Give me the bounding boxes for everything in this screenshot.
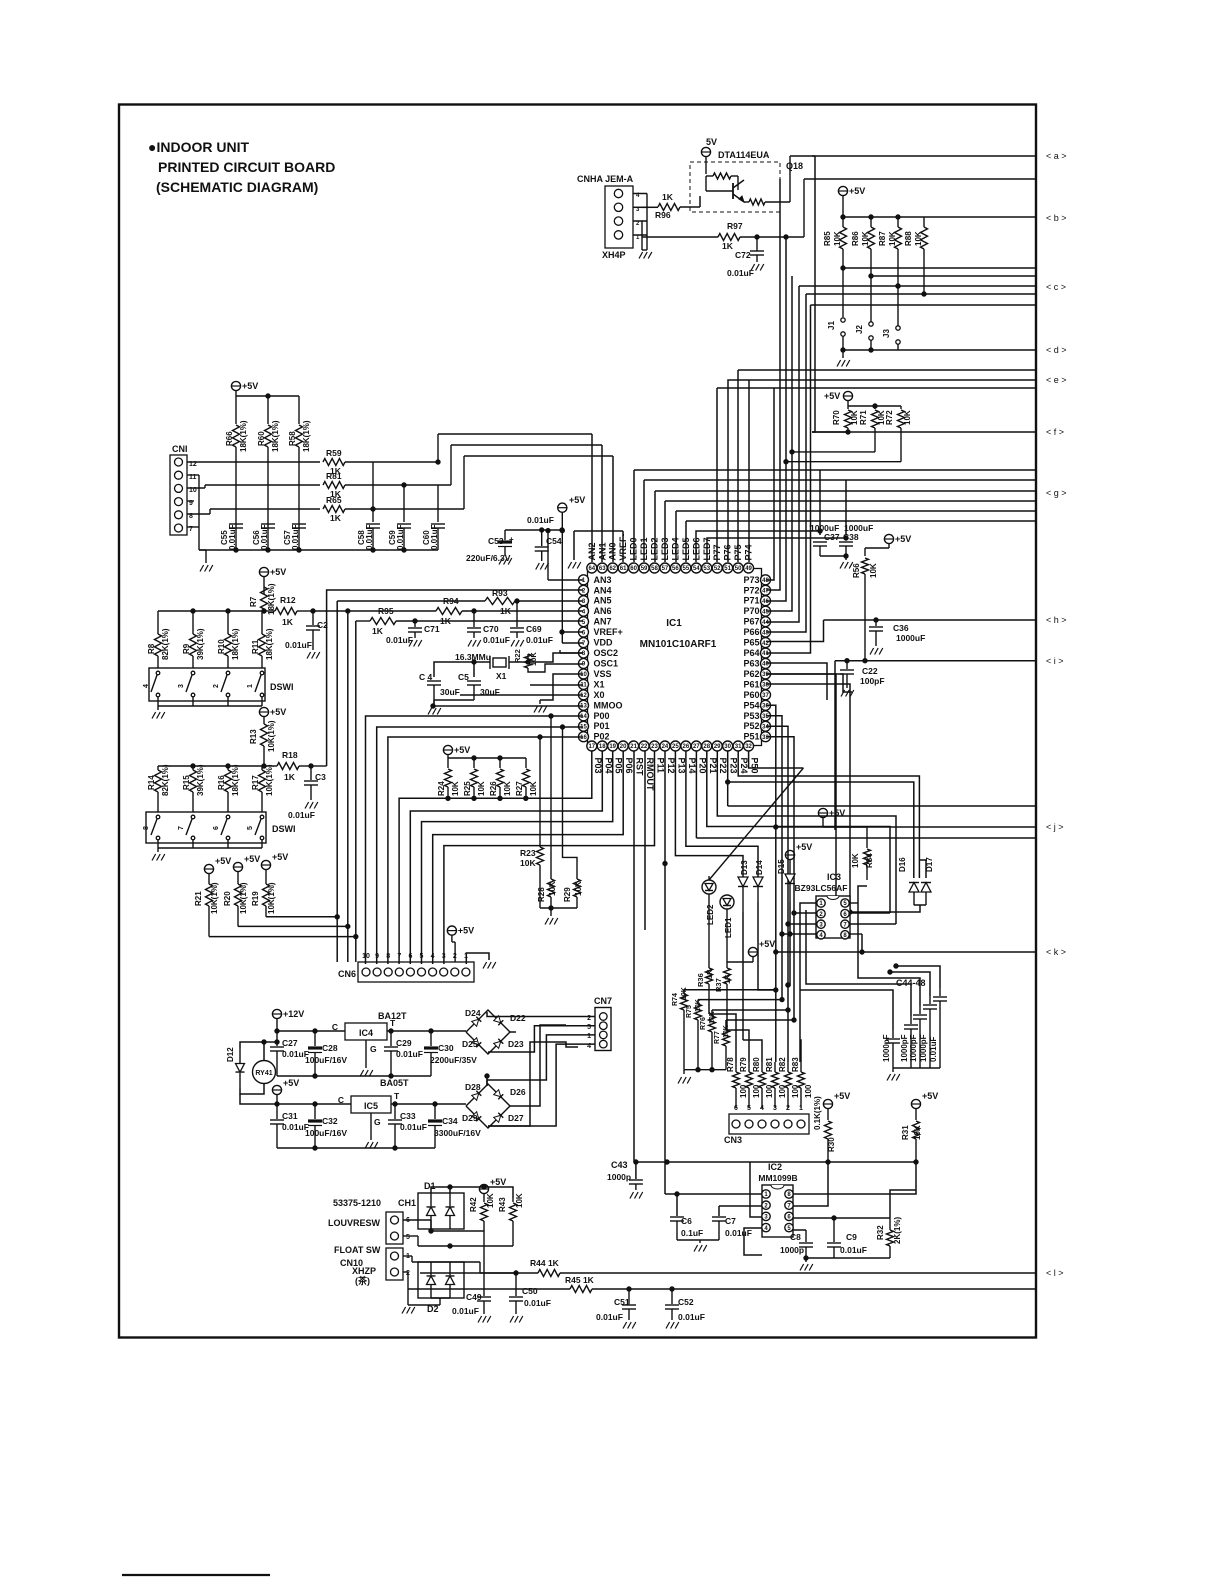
svg-text:T: T bbox=[394, 1091, 400, 1101]
capacitor C51 bbox=[628, 1289, 630, 1304]
wire C58 tap bbox=[371, 507, 375, 511]
svg-text:P66: P66 bbox=[743, 627, 759, 637]
svg-text:1K: 1K bbox=[723, 974, 732, 984]
svg-text:1: 1 bbox=[247, 684, 254, 688]
resistor R19 bbox=[263, 884, 270, 906]
svg-text:(SCHEMATIC DIAGRAM): (SCHEMATIC DIAGRAM) bbox=[156, 179, 318, 195]
capacitor C3 bbox=[304, 780, 318, 782]
svg-text:0.01uF: 0.01uF bbox=[400, 1122, 427, 1132]
svg-text:LED2: LED2 bbox=[706, 904, 715, 925]
capacitor C32 bbox=[314, 1104, 316, 1119]
ground C22 bbox=[841, 690, 845, 697]
svg-text:< a >: < a > bbox=[1046, 151, 1067, 161]
svg-text:< g >: < g > bbox=[1046, 488, 1067, 498]
wire C4C5 gnd rail bbox=[434, 699, 474, 701]
capacitor C46 bbox=[919, 1006, 921, 1014]
svg-text:P70: P70 bbox=[743, 606, 759, 616]
svg-text:P50: P50 bbox=[750, 758, 760, 774]
wire CN7 p5 from bridge1 bottom bbox=[488, 1026, 595, 1052]
ground C69 bbox=[511, 640, 515, 647]
crystal X1 bbox=[493, 658, 506, 667]
svg-text:10K: 10K bbox=[850, 410, 859, 425]
svg-text:C37: C37 bbox=[824, 532, 840, 542]
wire P12 col bbox=[664, 751, 666, 1194]
svg-text:100pF: 100pF bbox=[860, 676, 885, 686]
svg-text:1K: 1K bbox=[330, 513, 342, 523]
svg-text:6: 6 bbox=[213, 826, 220, 830]
svg-text:62: 62 bbox=[609, 566, 616, 572]
svg-text:0.01uF: 0.01uF bbox=[596, 1312, 623, 1322]
svg-text:0.01uF: 0.01uF bbox=[396, 1049, 423, 1059]
svg-text:220uF/6.3V: 220uF/6.3V bbox=[466, 553, 511, 563]
svg-text:R83: R83 bbox=[791, 1057, 800, 1072]
svg-text:37: 37 bbox=[762, 693, 769, 699]
wire AN0 riser bbox=[612, 456, 614, 562]
resistor R15 bbox=[192, 766, 194, 770]
power +5V D1 bbox=[479, 1184, 488, 1193]
svg-text:0.01uF: 0.01uF bbox=[288, 810, 315, 820]
svg-text:0.01uF: 0.01uF bbox=[291, 525, 300, 550]
svg-text:R70: R70 bbox=[832, 410, 841, 425]
bus line a1 bbox=[812, 155, 1037, 157]
svg-text:+5V: +5V bbox=[458, 926, 474, 936]
IC1 pin 42 P65 bbox=[761, 638, 771, 648]
svg-text:P62: P62 bbox=[743, 669, 759, 679]
resistor R95 bbox=[370, 618, 396, 625]
resistor R58 bbox=[298, 396, 300, 424]
svg-text:R87: R87 bbox=[878, 231, 887, 246]
svg-text:R60: R60 bbox=[257, 431, 266, 446]
wire R87 down to J3 bbox=[897, 286, 899, 317]
wire IC4 out bbox=[387, 1030, 466, 1032]
wire R78 riser bbox=[709, 1014, 736, 1062]
svg-text:R75: R75 bbox=[686, 1005, 693, 1018]
wire CN1 p11 bbox=[187, 474, 199, 476]
wire IC5 rail bbox=[277, 1103, 351, 1105]
svg-text:R79: R79 bbox=[739, 1057, 748, 1072]
bus line g3 bbox=[655, 490, 1037, 492]
svg-text:C: C bbox=[332, 1022, 338, 1032]
svg-text:R56: R56 bbox=[852, 563, 861, 578]
IC1 pin 44 P67 bbox=[761, 617, 771, 627]
power +5V D15 bbox=[785, 850, 794, 859]
svg-text:OSC1: OSC1 bbox=[594, 658, 619, 668]
wire P76 riser bbox=[728, 380, 749, 562]
bus line c5 bbox=[811, 304, 1038, 306]
wire R79 riser bbox=[727, 1030, 749, 1062]
wire C9 gnd rail bbox=[806, 1257, 890, 1259]
wire i left corner bbox=[834, 661, 836, 830]
capacitor C44 bbox=[892, 1030, 894, 1038]
wire D16D17 join bbox=[914, 904, 926, 906]
switch DSW1a pole 1 bbox=[260, 671, 264, 675]
wire CN10 to l1 bbox=[480, 1272, 516, 1274]
IC2 pin 4 bbox=[762, 1223, 770, 1231]
wire CN7 p2 from bridge1 top bbox=[487, 1012, 595, 1017]
svg-text:10K(1%): 10K(1%) bbox=[265, 764, 274, 796]
svg-text:+5V: +5V bbox=[242, 381, 258, 391]
svg-text:100uF/16V: 100uF/16V bbox=[305, 1128, 347, 1138]
IC1 pin 32 P50 bbox=[744, 741, 754, 751]
svg-text:10K: 10K bbox=[833, 231, 842, 246]
svg-text:R95: R95 bbox=[378, 606, 394, 616]
wire CN10b p1 bbox=[403, 1255, 412, 1257]
wire CN10b p2 bbox=[403, 1271, 408, 1273]
IC1 pin 33 P51 bbox=[761, 732, 771, 742]
capacitor C48 bbox=[939, 988, 941, 996]
svg-text:39K(1%): 39K(1%) bbox=[196, 764, 205, 796]
svg-text:IC2: IC2 bbox=[768, 1162, 782, 1172]
wire R71 bottom bbox=[792, 451, 875, 453]
IC3 pin 7 bbox=[841, 920, 849, 928]
IC3 pin 8 bbox=[841, 931, 849, 939]
resistor R22 bbox=[525, 654, 532, 668]
wire AN2 riser bbox=[591, 434, 593, 562]
wire R70 bottom f bbox=[812, 431, 848, 433]
wire P54 stub bbox=[766, 705, 776, 1062]
svg-text:0.01uF: 0.01uF bbox=[365, 525, 374, 550]
svg-text:D29: D29 bbox=[462, 1113, 478, 1123]
wire P11 to CN6 bbox=[444, 751, 655, 964]
svg-text:1: 1 bbox=[799, 1105, 803, 1112]
svg-text:J3: J3 bbox=[882, 329, 891, 338]
svg-text:C7: C7 bbox=[725, 1216, 736, 1226]
svg-text:MN101C10ARF1: MN101C10ARF1 bbox=[640, 639, 717, 650]
svg-text:10K: 10K bbox=[503, 781, 512, 796]
svg-text:10K(1%): 10K(1%) bbox=[267, 720, 276, 752]
svg-text:< b >: < b > bbox=[1046, 213, 1067, 223]
svg-text:18K(1%): 18K(1%) bbox=[271, 420, 280, 452]
svg-text:R74: R74 bbox=[672, 993, 679, 1006]
resistor R84 bbox=[866, 827, 868, 848]
svg-text:C49: C49 bbox=[466, 1292, 482, 1302]
wire vtrunk2 bbox=[785, 237, 787, 493]
resistor R44 bbox=[538, 1270, 560, 1277]
svg-text:R13: R13 bbox=[249, 729, 258, 744]
svg-text:D23: D23 bbox=[508, 1039, 524, 1049]
wire R28 gnd rail bbox=[540, 907, 577, 909]
wire J rail to d bus bbox=[843, 349, 898, 351]
wire P52 stub bbox=[766, 726, 788, 1010]
power +5V R13 bbox=[259, 707, 268, 716]
resistor R88 bbox=[923, 217, 925, 227]
IC1 pin 60 LED0 bbox=[629, 563, 639, 573]
svg-text:C51: C51 bbox=[614, 1297, 630, 1307]
wire C44 gnd rail bbox=[893, 1067, 940, 1069]
wire CN7 p4 from bridge2 bottom bbox=[488, 1044, 595, 1126]
wire IC3 p5 k bbox=[850, 902, 858, 904]
capacitor C27 bbox=[276, 1031, 278, 1046]
diode D16 bbox=[909, 883, 919, 893]
svg-text:CN7: CN7 bbox=[594, 996, 612, 1006]
IC1 pin 35 P53 bbox=[761, 711, 771, 721]
wire right pin 47 bbox=[766, 482, 780, 590]
wire R81 riser bbox=[775, 1061, 777, 1063]
IC1 pin 56 LED4 bbox=[670, 563, 680, 573]
svg-text:1K: 1K bbox=[440, 616, 452, 626]
wire LED1 riser bbox=[643, 480, 645, 562]
resistor R10 bbox=[227, 611, 229, 634]
svg-text:IC3: IC3 bbox=[827, 872, 841, 882]
ground C53 bbox=[499, 558, 503, 565]
resistor R29 bbox=[574, 879, 581, 897]
bus line g5 bbox=[676, 510, 1037, 512]
wire CN1 p10 bbox=[187, 487, 205, 489]
svg-text:18K(1%): 18K(1%) bbox=[302, 420, 311, 452]
svg-text:2: 2 bbox=[453, 953, 457, 960]
ground C43 bbox=[630, 1192, 634, 1199]
svg-text:P53: P53 bbox=[743, 711, 759, 721]
wire R66 rail bbox=[236, 395, 299, 397]
IC1 pin 31 P24 bbox=[733, 741, 743, 751]
svg-text:R26: R26 bbox=[489, 781, 498, 796]
svg-text:MM1099B: MM1099B bbox=[758, 1173, 797, 1183]
svg-text:R15: R15 bbox=[182, 775, 191, 790]
IC1 pin 64 AN2 bbox=[587, 563, 597, 573]
op-amp U_IC2 body bbox=[762, 1185, 793, 1237]
bus line c1 bbox=[843, 267, 1037, 269]
resistor R13 bbox=[261, 724, 268, 746]
svg-text:P11: P11 bbox=[656, 758, 666, 774]
IC1 pin 1 AN3 bbox=[579, 575, 589, 585]
svg-text:12: 12 bbox=[580, 693, 587, 699]
IC1 pin 14 P00 bbox=[579, 711, 589, 721]
IC2 pin 3 bbox=[762, 1212, 770, 1220]
IC1 pin 12 X0 bbox=[579, 690, 589, 700]
IC1 pin 46 P71 bbox=[761, 596, 771, 606]
svg-text:P54: P54 bbox=[743, 700, 759, 710]
wire vtrunk5 bbox=[805, 294, 807, 523]
svg-text:0.01uF: 0.01uF bbox=[678, 1312, 705, 1322]
wire D12 top bbox=[240, 1042, 277, 1048]
svg-text:C72: C72 bbox=[735, 250, 751, 260]
svg-text:R84: R84 bbox=[865, 853, 874, 868]
svg-text:24: 24 bbox=[662, 744, 669, 750]
wire R59 out bbox=[345, 461, 438, 463]
resistor R61 bbox=[323, 482, 345, 489]
svg-text:R44 1K: R44 1K bbox=[530, 1258, 560, 1268]
svg-text:10K: 10K bbox=[869, 563, 878, 578]
ground DSW1a bbox=[152, 712, 156, 719]
svg-text:R24: R24 bbox=[437, 781, 446, 796]
transistor Q18 internals bbox=[713, 173, 731, 179]
wire DSW1 top rail bbox=[158, 610, 264, 612]
svg-text:82K(1%): 82K(1%) bbox=[161, 764, 170, 796]
IC1 pin 50 P75 bbox=[733, 563, 743, 573]
svg-text:35: 35 bbox=[762, 714, 769, 720]
IC1 pin 10 VSS bbox=[579, 669, 589, 679]
svg-text:1K: 1K bbox=[662, 192, 674, 202]
IC1 pin 38 P61 bbox=[761, 679, 771, 689]
resistor R28 bbox=[548, 879, 555, 897]
svg-text:0.01uF: 0.01uF bbox=[727, 268, 754, 278]
IC2 pin 6 bbox=[785, 1212, 793, 1220]
wire RMOUT col bbox=[644, 751, 646, 930]
wire IC3 p3 bbox=[788, 923, 816, 925]
resistor R24 bbox=[447, 758, 449, 768]
wire right pin 43 bbox=[766, 523, 806, 632]
wire IC3 p2 bbox=[794, 912, 816, 914]
IC2 pin 5 bbox=[785, 1223, 793, 1231]
wire P74 riser bbox=[748, 380, 750, 562]
svg-text:R86: R86 bbox=[851, 231, 860, 246]
diode D14 bbox=[753, 877, 763, 887]
svg-text:C: C bbox=[338, 1095, 344, 1105]
IC3 pin 4 bbox=[817, 931, 825, 939]
wire R20 vert bbox=[238, 925, 348, 927]
svg-text:P00: P00 bbox=[594, 711, 610, 721]
resistor R20 bbox=[235, 884, 242, 906]
svg-text:R20: R20 bbox=[223, 891, 232, 906]
svg-text:26: 26 bbox=[683, 744, 690, 750]
IC1 pin 19 P05 bbox=[608, 741, 618, 751]
wire P53 stub bbox=[766, 716, 782, 1000]
resistor R76 bbox=[711, 1010, 713, 1016]
svg-text:R76: R76 bbox=[700, 1017, 707, 1030]
bus line l1 bbox=[560, 1272, 1037, 1274]
svg-text:VDD: VDD bbox=[594, 638, 614, 648]
wire R18 bus bbox=[311, 765, 327, 767]
ground C8 bbox=[800, 1264, 804, 1271]
svg-text:R59: R59 bbox=[326, 448, 342, 458]
switch DSW1b pole 6 bbox=[226, 815, 230, 819]
svg-text:XHZP: XHZP bbox=[352, 1266, 376, 1276]
connector CN1 bbox=[170, 455, 187, 535]
svg-text:C36: C36 bbox=[893, 623, 909, 633]
svg-text:61: 61 bbox=[620, 566, 627, 572]
svg-text:R58: R58 bbox=[288, 431, 297, 446]
svg-text:10K: 10K bbox=[520, 858, 536, 868]
resistor R79 bbox=[748, 1062, 750, 1072]
wire LED6 riser bbox=[696, 531, 820, 562]
resistor R17 bbox=[261, 766, 263, 770]
svg-text:5: 5 bbox=[406, 1234, 410, 1241]
svg-text:R23: R23 bbox=[520, 848, 536, 858]
IC1 pin 16 P02 bbox=[579, 732, 589, 742]
svg-text:3300uF/16V: 3300uF/16V bbox=[434, 1128, 481, 1138]
wire CN1 bottom rail bbox=[199, 549, 438, 551]
bus line k bbox=[776, 951, 1037, 953]
ground C3 bbox=[305, 802, 309, 809]
svg-text:2: 2 bbox=[786, 1105, 790, 1112]
svg-text:0.1uF: 0.1uF bbox=[681, 1228, 703, 1238]
wire LED2 riser bbox=[654, 491, 656, 562]
wire R21 vert bbox=[209, 936, 356, 938]
resistor R31 bbox=[913, 1121, 920, 1139]
switch DSW1a pole 4 bbox=[156, 671, 160, 675]
svg-text:82K(1%): 82K(1%) bbox=[161, 628, 170, 660]
ground C6C7 bbox=[694, 1245, 698, 1252]
power +5V R85 bbox=[838, 186, 847, 195]
capacitor C57 bbox=[292, 523, 306, 525]
svg-text:100uF/16V: 100uF/16V bbox=[305, 1055, 347, 1065]
wire R56 to i bbox=[864, 620, 866, 661]
resistor R42 bbox=[483, 1198, 485, 1202]
svg-text:43: 43 bbox=[762, 630, 769, 636]
svg-text:< e >: < e > bbox=[1046, 375, 1067, 385]
svg-text:X1: X1 bbox=[496, 671, 507, 681]
svg-text:60: 60 bbox=[630, 566, 637, 572]
svg-text:P14: P14 bbox=[687, 758, 697, 774]
wire IC2 p7 bbox=[793, 1162, 828, 1206]
svg-text:+5V: +5V bbox=[849, 186, 865, 196]
ground C52 bbox=[666, 1322, 670, 1329]
wire pin6 stub bbox=[562, 631, 583, 633]
ground D2 bbox=[402, 1307, 406, 1314]
svg-text:P02: P02 bbox=[594, 732, 610, 742]
wire IC4 gnd bbox=[365, 1040, 367, 1068]
resistor R26 bbox=[499, 758, 501, 768]
bus line j2 bbox=[776, 826, 1037, 828]
IC1 pin 2 AN4 bbox=[579, 585, 589, 595]
resistor R80 bbox=[761, 1062, 763, 1072]
svg-text:10: 10 bbox=[580, 672, 587, 678]
capacitor C31 bbox=[276, 1104, 278, 1119]
IC1 pin 61 VREF- bbox=[618, 563, 628, 573]
wire C53 rail bbox=[505, 529, 562, 531]
capacitor C56 bbox=[261, 523, 275, 525]
svg-text:P63: P63 bbox=[743, 658, 759, 668]
svg-text:CNI: CNI bbox=[172, 444, 188, 454]
wire R82 riser bbox=[787, 1010, 789, 1062]
ground C37C38 bbox=[840, 562, 844, 569]
resistor R86 bbox=[870, 217, 872, 227]
resistor R27 bbox=[525, 758, 527, 768]
svg-text:39: 39 bbox=[762, 672, 769, 678]
power +5V R19 bbox=[261, 860, 270, 869]
svg-text:AN4: AN4 bbox=[594, 585, 612, 595]
resistor R59 bbox=[323, 459, 345, 466]
wire vtrunk4 bbox=[798, 286, 800, 513]
capacitor C2 bbox=[306, 625, 320, 627]
svg-text:+5V: +5V bbox=[829, 808, 845, 818]
svg-text:DSWI: DSWI bbox=[272, 824, 296, 834]
wire R18 to C3 bbox=[299, 765, 311, 767]
power +5V R56 bbox=[884, 534, 893, 543]
connector CN10a bbox=[386, 1212, 403, 1244]
svg-text:CNHA JEM-A: CNHA JEM-A bbox=[577, 174, 634, 184]
wire P60 stub bbox=[766, 674, 852, 692]
svg-text:P52: P52 bbox=[743, 721, 759, 731]
svg-text:D15: D15 bbox=[777, 859, 786, 874]
svg-text:18: 18 bbox=[599, 744, 606, 750]
svg-text:36: 36 bbox=[762, 704, 769, 710]
svg-text:0.01uF: 0.01uF bbox=[725, 1228, 752, 1238]
svg-text:< h >: < h > bbox=[1046, 615, 1067, 625]
wire D1 top rail bbox=[431, 1187, 450, 1193]
bus line l2 bbox=[592, 1288, 1037, 1290]
ground J rail bbox=[842, 350, 844, 358]
svg-text:10K(1%): 10K(1%) bbox=[267, 882, 276, 914]
IC1 pin 5 AN7 bbox=[579, 617, 589, 627]
capacitor C52 bbox=[671, 1289, 673, 1304]
svg-text:< c >: < c > bbox=[1046, 282, 1066, 292]
svg-text:R30: R30 bbox=[827, 1137, 836, 1152]
svg-text:+5V: +5V bbox=[834, 1091, 850, 1101]
svg-text:R80: R80 bbox=[752, 1057, 761, 1072]
resistor R30 bbox=[825, 1121, 832, 1139]
ground C71 bbox=[409, 640, 413, 647]
svg-text:XH4P: XH4P bbox=[602, 250, 626, 260]
svg-text:P72: P72 bbox=[743, 585, 759, 595]
wire RY41 bbox=[240, 1084, 264, 1094]
svg-text:P04: P04 bbox=[603, 758, 613, 774]
wire C37C38 gnd bbox=[820, 555, 846, 557]
resistor R56 bbox=[862, 558, 869, 574]
svg-text:+5V: +5V bbox=[796, 842, 812, 852]
wire CNHA pins bbox=[633, 193, 647, 195]
wire P50 diag bbox=[749, 751, 804, 768]
